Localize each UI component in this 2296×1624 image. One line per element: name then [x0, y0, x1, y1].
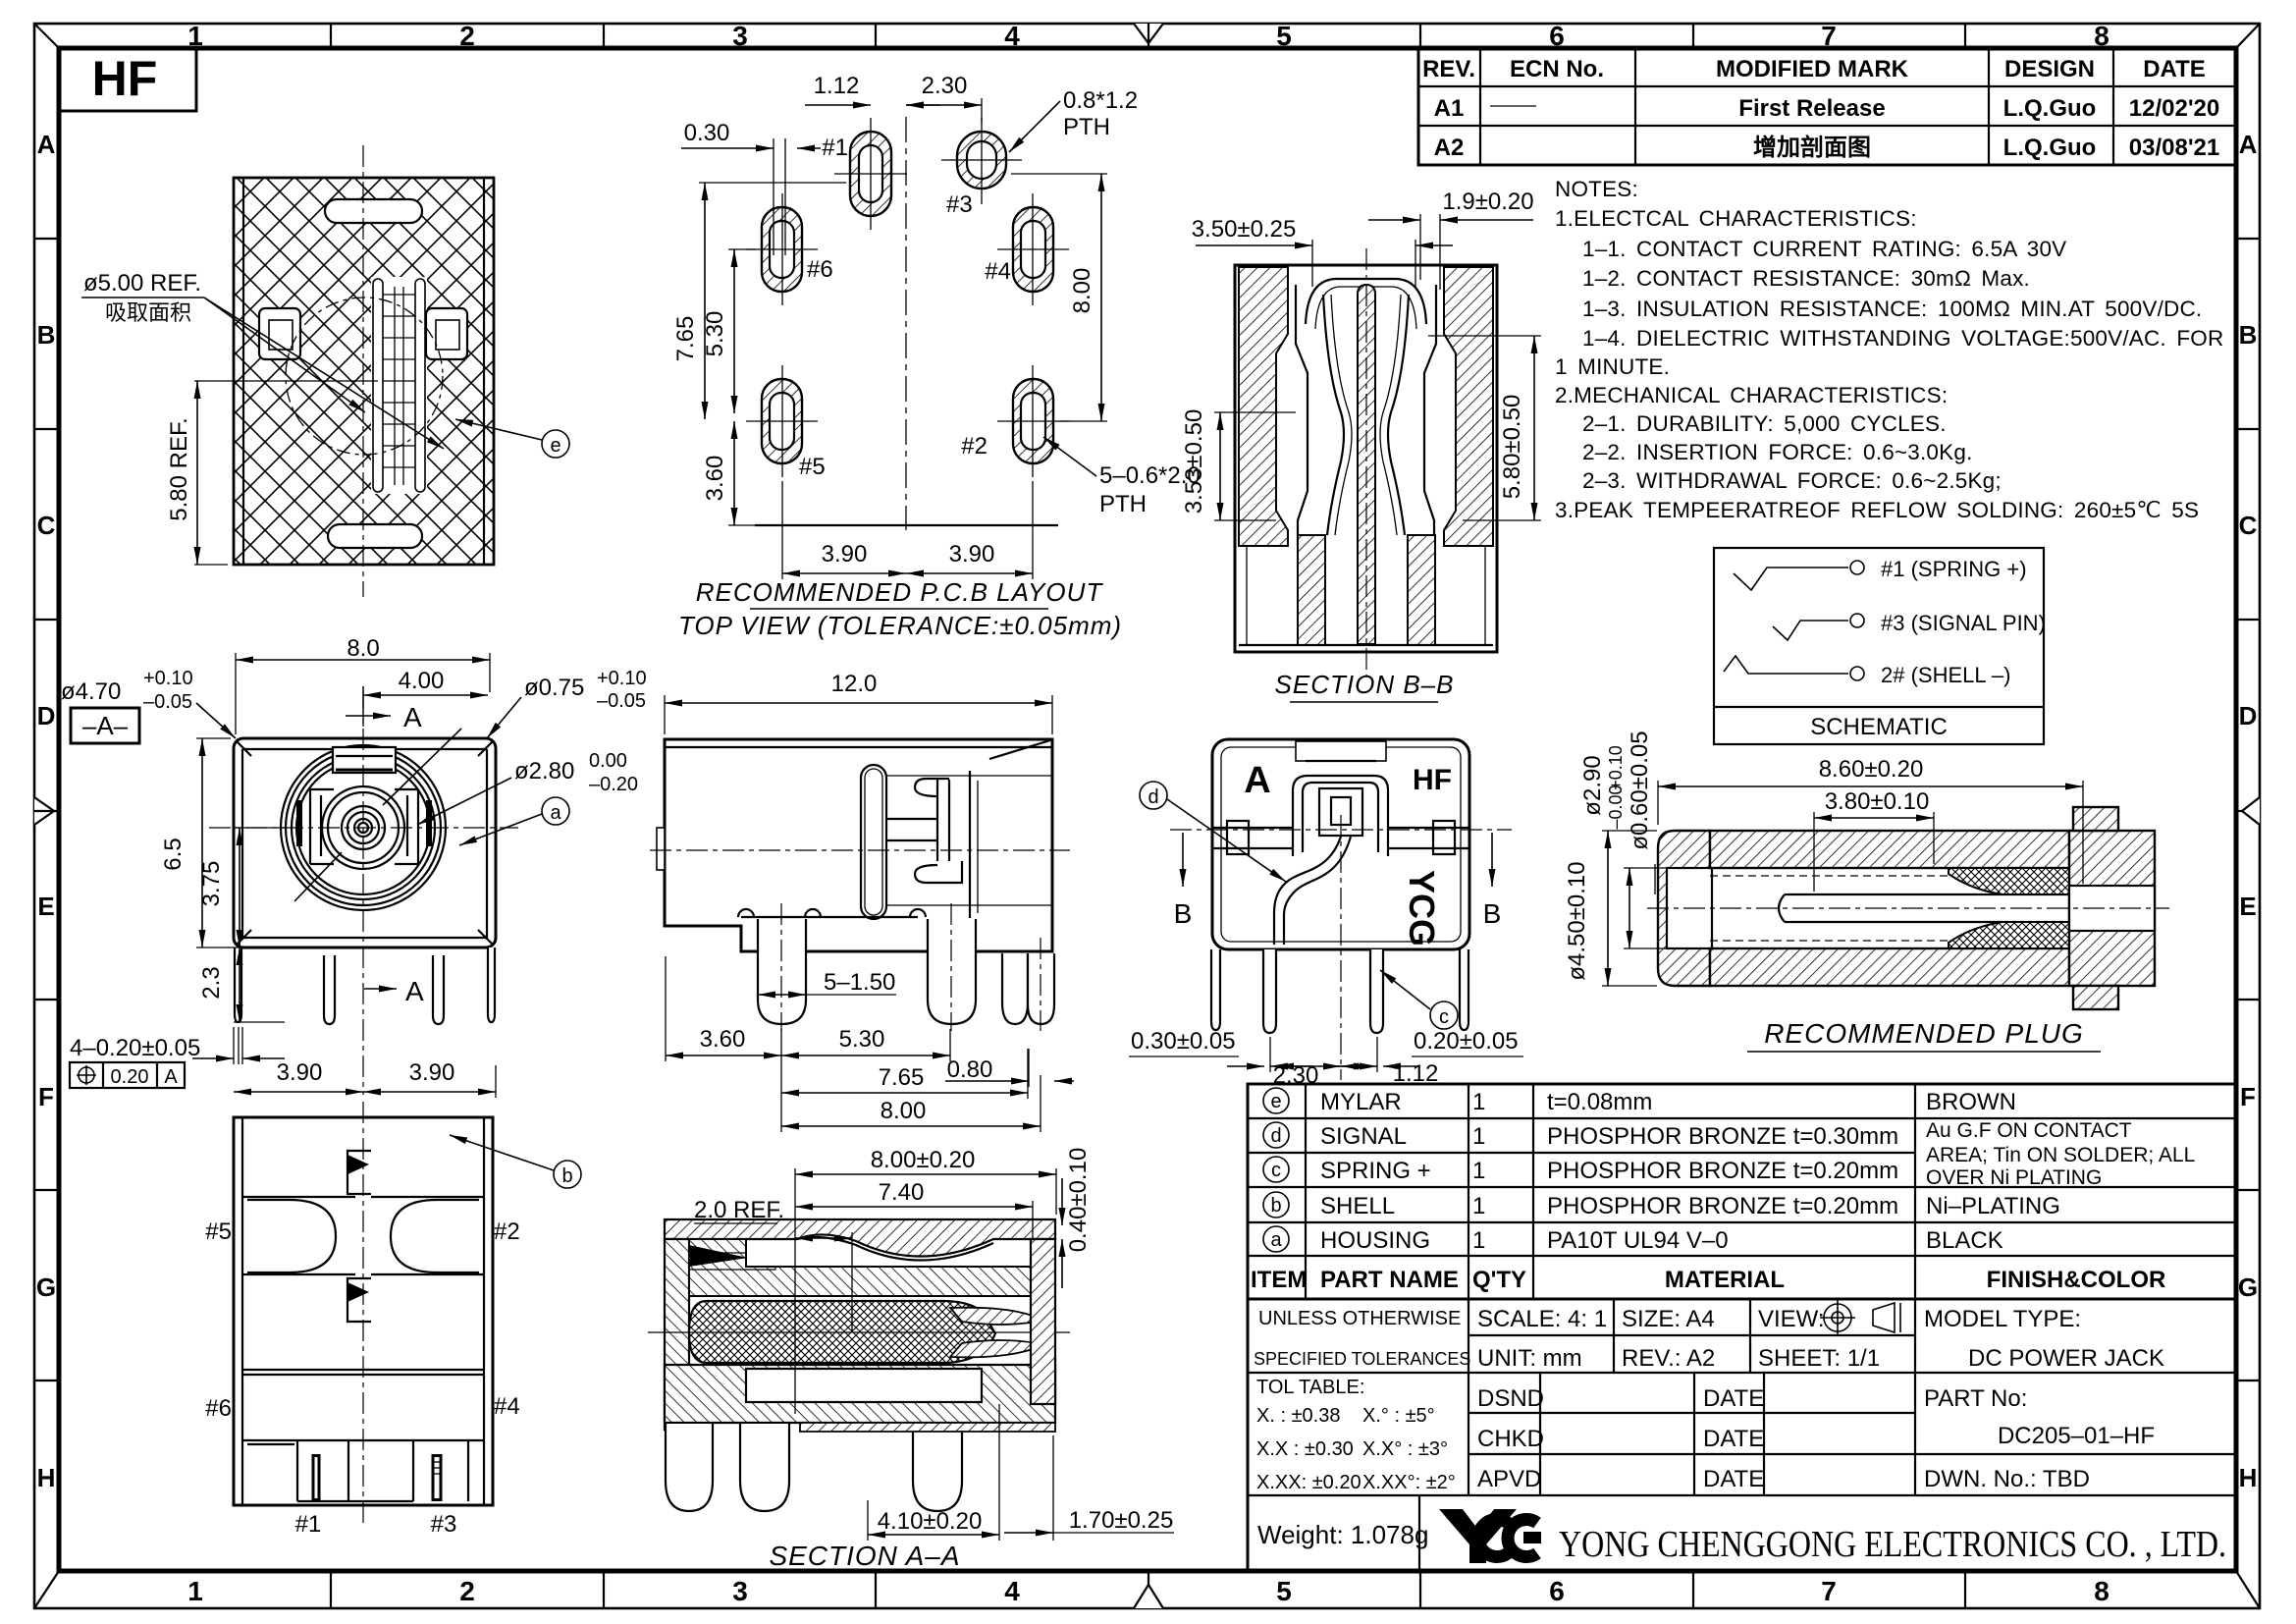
pin #3 mark: [432, 1454, 442, 1501]
svg-text:7: 7: [1821, 21, 1837, 51]
svg-text:C: C: [2239, 511, 2258, 540]
svg-text:5: 5: [1276, 21, 1292, 51]
svg-text:7: 7: [1821, 1576, 1837, 1606]
svg-text:0.8*1.2: 0.8*1.2: [1063, 87, 1138, 114]
svg-text:3.90: 3.90: [409, 1059, 455, 1086]
svg-text:#1 (SPRING +): #1 (SPRING +): [1881, 557, 2027, 581]
T-slot spring window: [861, 765, 886, 919]
svg-text:3.PEAK TEMPEERATREOF REFLOW: 3.PEAK TEMPEERATREOF REFLOW SOLDING: 260…: [1555, 498, 2199, 522]
svg-text:8.0: 8.0: [347, 635, 379, 662]
concentric circles: [281, 745, 446, 910]
svg-text:1–1. CONTACT CURRENT RATING: 1–1. CONTACT CURRENT RATING: 6.5A 30V: [1582, 237, 2066, 261]
svg-text:6: 6: [1549, 1576, 1565, 1606]
svg-text:d: d: [1148, 786, 1158, 808]
svg-text:B: B: [37, 320, 56, 350]
svg-text:b: b: [1270, 1195, 1281, 1217]
svg-text:ø0.75: ø0.75: [524, 675, 584, 701]
phantom circle: [286, 298, 443, 455]
item balloons column: [1263, 1088, 1289, 1252]
feet partitions: [247, 1440, 468, 1501]
svg-text:b: b: [561, 1165, 572, 1187]
svg-text:2: 2: [459, 1576, 475, 1606]
svg-text:–A–: –A–: [82, 711, 129, 740]
top notch: [333, 747, 396, 773]
svg-text:3.80±0.10: 3.80±0.10: [1825, 788, 1930, 815]
left contact bar: [296, 800, 302, 846]
svg-text:6.5: 6.5: [160, 838, 187, 870]
svg-text:ø4.50±0.10: ø4.50±0.10: [1564, 861, 1590, 980]
svg-text:3.90: 3.90: [949, 541, 995, 568]
frame grid numbers top: [187, 21, 2109, 51]
pth slot #1: [834, 118, 907, 230]
svg-text:PART No:: PART No:: [1924, 1385, 2027, 1412]
svg-text:1: 1: [1472, 1158, 1485, 1184]
centerline: [362, 1102, 364, 1528]
schematic box: [1714, 548, 2046, 744]
svg-text:12.0: 12.0: [831, 671, 878, 697]
pin #1 mark: [312, 1454, 321, 1501]
svg-text:8: 8: [2094, 1576, 2109, 1606]
contact fingers right: [950, 1308, 1037, 1325]
bottom contour with notches: [741, 916, 918, 918]
housing front outline: [234, 738, 496, 947]
svg-text:+0.10: +0.10: [597, 668, 647, 689]
svg-text:X.X° : ±3°: X.X° : ±3°: [1362, 1438, 1448, 1460]
balloon b: [554, 1161, 581, 1188]
svg-text:SPRING +: SPRING +: [1320, 1158, 1431, 1184]
svg-text:PHOSPHOR BRONZE t=0.20mm: PHOSPHOR BRONZE t=0.20mm: [1547, 1193, 1898, 1219]
svg-text:First Release: First Release: [1738, 95, 1885, 122]
svg-text:DESIGN: DESIGN: [2004, 56, 2095, 82]
svg-text:0.30: 0.30: [684, 120, 730, 146]
pcb baseline: [755, 524, 1058, 526]
top-right chamfer: [989, 740, 1050, 759]
svg-text:2# (SHELL –): 2# (SHELL –): [1881, 663, 2010, 687]
svg-text:8.00±0.20: 8.00±0.20: [871, 1147, 976, 1173]
plug tip cap: [1658, 831, 1710, 986]
svg-text:HF: HF: [92, 51, 158, 106]
svg-text:0.00: 0.00: [589, 750, 627, 772]
svg-text:CHKD: CHKD: [1477, 1426, 1544, 1452]
svg-text:B: B: [1483, 898, 1502, 929]
frame grid column tick lines top and bottom: [331, 24, 1965, 1608]
right clip: [426, 308, 467, 359]
center core nested: [1293, 776, 1388, 856]
bottom housing: [665, 1365, 1055, 1423]
svg-text:#4: #4: [494, 1393, 520, 1420]
svg-text:4: 4: [1004, 1576, 1020, 1606]
bottom hatched columns: [1298, 535, 1325, 645]
inner right wall line: [1424, 285, 1436, 546]
svg-text:#6: #6: [205, 1395, 232, 1422]
svg-text:ø4.70: ø4.70: [61, 678, 121, 705]
shell mid band: [689, 1239, 1031, 1296]
svg-text:–0.20: –0.20: [589, 774, 638, 795]
svg-text:7.65: 7.65: [879, 1064, 925, 1091]
svg-text:–0.05: –0.05: [597, 690, 646, 712]
vertical centerline: [362, 145, 364, 597]
svg-text:1–3. INSULATION RESISTANCE:: 1–3. INSULATION RESISTANCE: 100MΩ MIN.AT…: [1582, 297, 2202, 321]
frame grid letters left: [36, 130, 56, 1492]
BOM table: [1248, 1084, 2236, 1299]
svg-text:3.60: 3.60: [702, 456, 728, 502]
svg-text:A: A: [164, 1066, 178, 1088]
svg-text:3: 3: [732, 1576, 748, 1606]
svg-text:增加剖面图: 增加剖面图: [1753, 134, 1871, 161]
view centerlines: [1170, 829, 1512, 831]
svg-text:3.53±0.50: 3.53±0.50: [1181, 409, 1207, 514]
svg-text:SPECIFIED TOLERANCES: SPECIFIED TOLERANCES: [1254, 1349, 1470, 1369]
section body outline: [1235, 265, 1497, 652]
svg-text:B: B: [1174, 898, 1193, 929]
left D cutout: [247, 1200, 336, 1272]
svg-text:ø2.90: ø2.90: [1579, 755, 1606, 815]
svg-text:APVD: APVD: [1477, 1466, 1541, 1492]
svg-text:SECTION B–B: SECTION B–B: [1275, 670, 1455, 699]
frame grid row tick lines left and right: [34, 239, 2260, 1380]
svg-text:REV.: A2: REV.: A2: [1622, 1345, 1715, 1372]
svg-text:1.12: 1.12: [814, 73, 860, 99]
svg-text:8.00: 8.00: [1069, 268, 1095, 314]
svg-text:3.90: 3.90: [822, 541, 868, 568]
side tab lines: [1212, 821, 1469, 854]
inner left wall line: [1296, 285, 1308, 546]
svg-text:L.Q.Guo: L.Q.Guo: [2003, 135, 2097, 161]
svg-text:1: 1: [1472, 1123, 1485, 1150]
svg-text:H: H: [2239, 1463, 2258, 1492]
svg-text:X.XX: ±0.20: X.XX: ±0.20: [1256, 1472, 1362, 1493]
svg-text:8.60±0.20: 8.60±0.20: [1819, 756, 1924, 783]
crosshair centerlines: [209, 827, 518, 829]
svg-text:F: F: [2240, 1082, 2256, 1111]
diagonal leader lines through circles: [294, 852, 342, 901]
notes text block: [1555, 177, 2223, 522]
svg-text:VIEW:: VIEW:: [1758, 1306, 1825, 1332]
top slot: [325, 199, 422, 223]
svg-text:B: B: [2239, 320, 2258, 350]
svg-text:F: F: [38, 1082, 54, 1111]
svg-text:ø0.60±0.05: ø0.60±0.05: [1627, 731, 1653, 849]
svg-text:5.80±0.50: 5.80±0.50: [1499, 395, 1525, 500]
svg-text:A: A: [2239, 130, 2258, 159]
left clip: [259, 308, 300, 359]
svg-text:1–4. DIELECTRIC WITHSTANDING: 1–4. DIELECTRIC WITHSTANDING VOLTAGE:500…: [1582, 326, 2223, 351]
shell bottom outline: [234, 1117, 493, 1505]
centerline: [650, 849, 1070, 851]
svg-text:TOP VIEW (TOLERANCE:±0.05mm): TOP VIEW (TOLERANCE:±0.05mm): [678, 611, 1122, 640]
GD&T frame: [70, 1062, 185, 1088]
top latch: [1296, 741, 1386, 761]
corner chamfers: [237, 741, 493, 945]
pth slot #2: [997, 365, 1069, 477]
revision table: [1418, 48, 2236, 165]
balloon d: [1140, 782, 1167, 809]
svg-text:HF: HF: [1413, 764, 1452, 796]
bottom slot: [328, 524, 422, 548]
svg-text:1: 1: [187, 21, 203, 51]
svg-text:MODIFIED MARK: MODIFIED MARK: [1716, 56, 1909, 82]
svg-text:ø2.80: ø2.80: [514, 758, 574, 785]
svg-text:X.X : ±0.30: X.X : ±0.30: [1256, 1438, 1354, 1460]
right leaf spring: [1388, 295, 1409, 535]
svg-text:RECOMMENDED P.C.B LAYOUT: RECOMMENDED P.C.B LAYOUT: [696, 577, 1104, 607]
signal pin S-bend: [1274, 837, 1341, 945]
svg-text:5.80 REF.: 5.80 REF.: [166, 417, 192, 520]
svg-text:1 MINUTE.: 1 MINUTE.: [1555, 354, 1670, 379]
frame grid numbers bottom: [187, 1576, 2109, 1606]
svg-text:3.50±0.25: 3.50±0.25: [1192, 216, 1297, 243]
svg-text:DC POWER JACK: DC POWER JACK: [1968, 1345, 2164, 1372]
svg-text:PART NAME: PART NAME: [1320, 1267, 1459, 1293]
center top tab: [347, 1151, 371, 1194]
svg-text:SHEET: 1/1: SHEET: 1/1: [1758, 1345, 1880, 1372]
svg-text:d: d: [1270, 1125, 1281, 1147]
svg-text:ø5.00 REF.: ø5.00 REF.: [83, 270, 201, 297]
pth hole #3: [941, 118, 1022, 204]
svg-text:1: 1: [1472, 1193, 1485, 1219]
svg-text:UNLESS OTHERWISE: UNLESS OTHERWISE: [1258, 1308, 1461, 1329]
section A-A cut arrows: [362, 686, 364, 727]
YCG logo: [1439, 1509, 1541, 1563]
svg-text:A: A: [405, 976, 424, 1006]
svg-text:TOL TABLE:: TOL TABLE:: [1256, 1377, 1364, 1398]
pth slot #4: [997, 193, 1069, 305]
svg-text:X.° : ±5°: X.° : ±5°: [1362, 1405, 1435, 1427]
knurled insulator top: [1949, 868, 2069, 894]
svg-text:1.ELECTCAL CHARACTERISTICS:: 1.ELECTCAL CHARACTERISTICS:: [1555, 206, 1917, 231]
svg-text:DWN. No.: TBD: DWN. No.: TBD: [1924, 1466, 2090, 1492]
svg-text:#1: #1: [822, 135, 848, 161]
svg-text:YCG: YCG: [1402, 870, 1442, 947]
svg-text:OVER Ni PLATING: OVER Ni PLATING: [1926, 1166, 2102, 1189]
svg-text:1: 1: [1472, 1089, 1485, 1115]
back legs: [1211, 949, 1468, 1033]
svg-text:YONG CHENGGONG ELECTRONICS: YONG CHENGGONG ELECTRONICS CO. , LTD.: [1559, 1524, 2226, 1565]
svg-text:SCALE: 4: 1: SCALE: 4: 1: [1477, 1306, 1607, 1332]
black wedge detail top-left: [689, 1245, 748, 1267]
title block: [1248, 1299, 2236, 1571]
svg-text:2.30: 2.30: [922, 73, 968, 99]
svg-text:+0.10: +0.10: [1606, 745, 1626, 790]
svg-text:#3 (SIGNAL PIN): #3 (SIGNAL PIN): [1881, 611, 2046, 635]
mylar body hatched: [234, 178, 494, 565]
balloon a: [542, 797, 569, 825]
barrel top wall: [1710, 831, 2069, 868]
svg-text:G: G: [36, 1272, 56, 1302]
balloon e: [542, 430, 569, 458]
svg-text:4.00: 4.00: [399, 668, 445, 694]
svg-text:1.70±0.25: 1.70±0.25: [1069, 1507, 1174, 1534]
svg-text:1–2. CONTACT RESISTANCE: 30: 1–2. CONTACT RESISTANCE: 30mΩ Max.: [1582, 266, 2030, 291]
svg-text:UNIT: mm: UNIT: mm: [1477, 1345, 1582, 1372]
svg-text:c: c: [1439, 1006, 1449, 1028]
svg-text:3.90: 3.90: [277, 1059, 323, 1086]
datum -A-: [71, 708, 139, 743]
plug rear body: [2069, 831, 2155, 986]
svg-text:#1: #1: [295, 1511, 322, 1538]
svg-text:1.9±0.20: 1.9±0.20: [1442, 189, 1533, 215]
svg-text:0.30±0.05: 0.30±0.05: [1131, 1028, 1236, 1055]
svg-text:PHOSPHOR BRONZE t=0.20mm: PHOSPHOR BRONZE t=0.20mm: [1547, 1158, 1898, 1184]
right D cutout: [391, 1200, 479, 1272]
svg-text:1: 1: [1472, 1227, 1485, 1254]
svg-text:8.00: 8.00: [881, 1098, 927, 1124]
svg-text:Q'TY: Q'TY: [1472, 1267, 1526, 1293]
HF logo box top-left: [59, 48, 196, 111]
svg-text:5: 5: [1276, 1576, 1292, 1606]
svg-text:–0.05: –0.05: [143, 691, 192, 713]
svg-text:3.60: 3.60: [700, 1026, 746, 1053]
svg-text:SIZE: A4: SIZE: A4: [1622, 1306, 1715, 1332]
svg-text:MYLAR: MYLAR: [1320, 1089, 1402, 1115]
svg-text:MATERIAL: MATERIAL: [1665, 1267, 1785, 1293]
shell side outline: [665, 739, 1052, 951]
svg-text:0.80: 0.80: [947, 1056, 993, 1083]
svg-text:DATE: DATE: [1703, 1385, 1764, 1412]
svg-text:+0.10: +0.10: [143, 668, 193, 689]
svg-text:X. : ±0.38: X. : ±0.38: [1256, 1405, 1340, 1427]
right contact bar: [426, 800, 432, 846]
right wall hatched: [1444, 267, 1493, 546]
svg-text:a: a: [1270, 1229, 1282, 1251]
barrel bottom wall: [1710, 948, 2069, 986]
svg-text:2.0 REF.: 2.0 REF.: [694, 1197, 784, 1223]
svg-text:0.40±0.10: 0.40±0.10: [1065, 1148, 1092, 1253]
svg-text:e: e: [1270, 1091, 1281, 1112]
svg-text:AREA; Tin ON SOLDER; ALL: AREA; Tin ON SOLDER; ALL: [1926, 1144, 2195, 1166]
svg-text:DSND: DSND: [1477, 1385, 1544, 1412]
svg-text:2–3. WITHDRAWAL FORCE: 0.6~2: 2–3. WITHDRAWAL FORCE: 0.6~2.5Kg;: [1582, 468, 2002, 493]
left mylar tab: [657, 828, 665, 870]
svg-text:e: e: [550, 435, 561, 457]
svg-text:2.3: 2.3: [198, 966, 225, 999]
pth slot #6: [746, 193, 818, 305]
section centerline: [1365, 248, 1367, 676]
svg-text:Au G.F ON CONTACT: Au G.F ON CONTACT: [1926, 1119, 2132, 1142]
svg-text:t=0.08mm: t=0.08mm: [1547, 1089, 1652, 1115]
section pins: [666, 1424, 962, 1511]
svg-text:PHOSPHOR BRONZE t=0.30mm: PHOSPHOR BRONZE t=0.30mm: [1547, 1123, 1898, 1150]
balloon c: [1430, 1001, 1458, 1029]
shell back outline: [1212, 739, 1469, 949]
svg-text:HOUSING: HOUSING: [1320, 1227, 1430, 1254]
svg-text:7.40: 7.40: [879, 1179, 925, 1206]
svg-text:3.75: 3.75: [198, 861, 225, 907]
svg-text:ECN No.: ECN No.: [1510, 56, 1604, 82]
svg-text:#3: #3: [946, 191, 973, 218]
svg-text:0.20: 0.20: [111, 1066, 149, 1088]
svg-text:5–1.50: 5–1.50: [824, 969, 895, 996]
svg-text:#2: #2: [961, 433, 988, 460]
svg-text:A: A: [403, 702, 422, 732]
svg-text:E: E: [37, 892, 54, 921]
knurled core (signal contact): [689, 1301, 995, 1363]
schematic contact #3: [1773, 621, 1848, 640]
solder pins: [758, 919, 1054, 1024]
svg-text:12/02'20: 12/02'20: [2129, 95, 2219, 122]
svg-text:X.XX°: ±2°: X.XX°: ±2°: [1362, 1472, 1456, 1493]
pth slot #5: [746, 365, 818, 477]
svg-text:a: a: [550, 802, 561, 824]
center ladder: [371, 277, 427, 494]
plug centerline: [1647, 907, 2169, 909]
svg-text:DATE: DATE: [1703, 1466, 1764, 1492]
svg-text:1.12: 1.12: [1393, 1060, 1439, 1087]
svg-text:SCHEMATIC: SCHEMATIC: [1810, 714, 1948, 740]
svg-text:Weight: 1.078g: Weight: 1.078g: [1257, 1520, 1428, 1549]
svg-text:A1: A1: [1434, 95, 1465, 122]
left wall hatched: [1239, 267, 1288, 546]
svg-text:DATE: DATE: [2143, 56, 2206, 82]
schematic contact #2 shell: [1724, 656, 1848, 674]
svg-text:DC205–01–HF: DC205–01–HF: [1998, 1423, 2155, 1449]
svg-text:2–1. DURABILITY: 5,000 CYCL: 2–1. DURABILITY: 5,000 CYCLES.: [1582, 411, 1947, 436]
svg-text:4: 4: [1004, 21, 1020, 51]
svg-text:#6: #6: [807, 256, 833, 283]
svg-text:D: D: [2239, 701, 2258, 731]
svg-text:5.30: 5.30: [839, 1026, 885, 1053]
svg-text:C: C: [37, 511, 56, 540]
rear top lug: [2073, 807, 2118, 831]
svg-text:A: A: [1244, 760, 1270, 801]
svg-text:–0.00: –0.00: [1606, 785, 1626, 829]
svg-text:1: 1: [187, 1576, 203, 1606]
pcb centerline: [905, 117, 907, 530]
svg-text:0.20±0.05: 0.20±0.05: [1414, 1028, 1519, 1055]
section B cut arrows: [1182, 833, 1184, 887]
svg-text:MODEL TYPE:: MODEL TYPE:: [1924, 1306, 2081, 1332]
svg-text:5.30: 5.30: [702, 311, 728, 357]
left leaf spring: [1323, 295, 1344, 535]
svg-text:A: A: [37, 130, 56, 159]
svg-text:L.Q.Guo: L.Q.Guo: [2003, 95, 2097, 122]
knurled insulator bottom: [1949, 922, 2069, 948]
frame grid letters right: [2238, 130, 2258, 1492]
svg-text:G: G: [2238, 1272, 2258, 1302]
schematic contact #1: [1734, 568, 1848, 590]
svg-text:2–2. INSERTION FORCE: 0.6~3.: 2–2. INSERTION FORCE: 0.6~3.0Kg.: [1582, 440, 1973, 464]
svg-text:BLACK: BLACK: [1926, 1227, 2003, 1254]
internal partition lines: [242, 1197, 484, 1440]
center pin cavity: [1779, 894, 2069, 922]
svg-text:4–0.20±0.05: 4–0.20±0.05: [70, 1035, 200, 1061]
svg-text:Ni–PLATING: Ni–PLATING: [1926, 1193, 2060, 1219]
svg-text:D: D: [37, 701, 56, 731]
svg-text:SHELL: SHELL: [1320, 1193, 1395, 1219]
svg-text:SIGNAL: SIGNAL: [1320, 1123, 1407, 1150]
svg-text:8: 8: [2094, 21, 2109, 51]
svg-text:2.MECHANICAL CHARACTERISTICS:: 2.MECHANICAL CHARACTERISTICS:: [1555, 383, 1948, 407]
svg-text:H: H: [37, 1463, 56, 1492]
dim 5.80 REF.: [196, 381, 198, 565]
svg-text:2: 2: [459, 21, 475, 51]
view projection symbols: [1820, 1300, 1900, 1335]
svg-text:#5: #5: [799, 454, 826, 480]
svg-text:6: 6: [1549, 21, 1565, 51]
svg-text:c: c: [1271, 1160, 1281, 1181]
svg-text:RECOMMENDED PLUG: RECOMMENDED PLUG: [1764, 1018, 2084, 1049]
legs: [235, 947, 495, 1024]
svg-text:PA10T UL94 V–0: PA10T UL94 V–0: [1547, 1227, 1729, 1254]
left wall: [665, 1239, 689, 1430]
svg-text:3: 3: [732, 21, 748, 51]
svg-text:A2: A2: [1434, 135, 1465, 161]
top mouth cap: [1306, 279, 1426, 324]
svg-text:PTH: PTH: [1099, 491, 1147, 517]
center signal pin hatched: [1358, 285, 1375, 644]
right wall: [1031, 1239, 1055, 1404]
svg-text:#3: #3: [431, 1511, 457, 1538]
